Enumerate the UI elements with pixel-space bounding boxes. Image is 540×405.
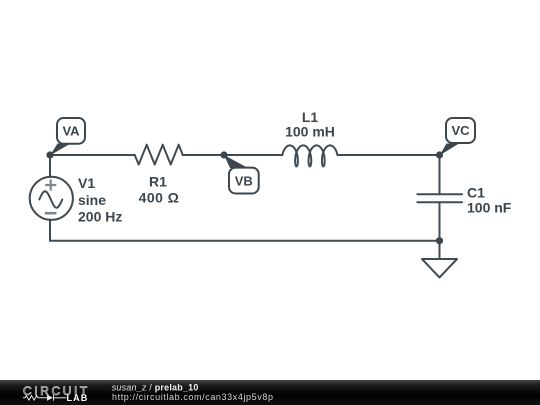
footer logo schematic glyph: resistor zigzag, diode, line bbox=[23, 395, 67, 401]
ground symbol bbox=[422, 259, 457, 277]
inductor L1 bbox=[282, 145, 337, 166]
svg-text:400 Ω: 400 Ω bbox=[139, 190, 180, 206]
svg-text:VA: VA bbox=[62, 124, 80, 139]
node VB flag pointer bbox=[224, 155, 248, 168]
svg-text:VC: VC bbox=[451, 123, 470, 138]
svg-text:100 mH: 100 mH bbox=[285, 124, 335, 140]
bottom junction node dot bbox=[436, 237, 443, 244]
wire from bottom junction to ground bbox=[439, 241, 441, 259]
wire top from node VA to resistor R1 bbox=[50, 154, 135, 156]
node VA flag box bbox=[57, 118, 85, 144]
svg-text:VB: VB bbox=[235, 173, 253, 188]
node B dot (VB) bbox=[220, 151, 227, 158]
wire left vertical from node VA to V1 top terminal bbox=[49, 155, 51, 177]
node A dot (VA) bbox=[46, 151, 53, 158]
svg-text:R1: R1 bbox=[149, 174, 167, 190]
svg-text:C1: C1 bbox=[467, 184, 485, 200]
wire from inductor L1 to node VC bbox=[338, 154, 440, 156]
minus sign of source V1 bbox=[45, 212, 57, 215]
svg-text:LAB: LAB bbox=[67, 393, 89, 403]
wire from capacitor C1 to bottom junction node bbox=[439, 202, 441, 240]
node VC flag box bbox=[446, 118, 475, 143]
plus sign of source V1 bbox=[45, 179, 56, 190]
footer bar bbox=[0, 380, 540, 405]
node C dot (VC) bbox=[436, 151, 443, 158]
svg-text:http://circuitlab.com/can33x4j: http://circuitlab.com/can33x4jp5v8p bbox=[112, 392, 274, 402]
svg-text:V1: V1 bbox=[78, 175, 95, 191]
capacitor C1 bottom plate bbox=[417, 201, 462, 203]
node VA flag pointer bbox=[50, 144, 71, 156]
svg-text:100 nF: 100 nF bbox=[467, 200, 512, 216]
capacitor C1 top plate bbox=[417, 193, 462, 195]
wire bottom rail bbox=[50, 240, 440, 242]
node VC flag pointer bbox=[440, 144, 460, 156]
svg-text:200 Hz: 200 Hz bbox=[78, 209, 122, 225]
wire right vertical from node VC to capacitor C1 bbox=[439, 155, 441, 194]
voltage source V1 circle bbox=[30, 177, 73, 220]
footer logo diode triangle bbox=[47, 395, 53, 401]
wire left vertical from V1 bottom terminal to bottom rail bbox=[49, 220, 51, 241]
voltage source V1 sine symbol bbox=[39, 191, 62, 207]
wire from resistor R1 to inductor L1 through node VB bbox=[183, 154, 283, 156]
resistor R1 bbox=[135, 145, 183, 165]
node VB flag box bbox=[229, 168, 259, 194]
svg-text:sine: sine bbox=[78, 192, 106, 208]
